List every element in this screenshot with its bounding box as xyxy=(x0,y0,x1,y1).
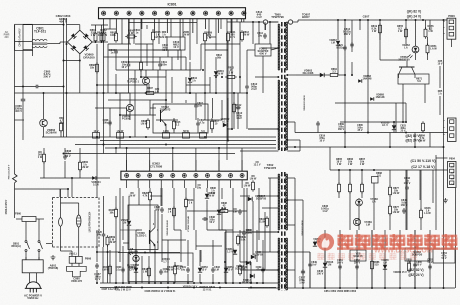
resistor R877b xyxy=(389,204,391,206)
wire field v misc xyxy=(185,57,187,70)
junction center dots xyxy=(202,69,204,71)
wire long bus C xyxy=(75,144,276,146)
wire leftmid v xyxy=(43,148,45,154)
wire uf v extra xyxy=(109,19,111,29)
wire mesh v1 xyxy=(107,44,109,93)
transformer T801 core xyxy=(281,22,283,26)
diode VD801 xyxy=(188,78,192,82)
wire a801 to plug xyxy=(29,273,31,283)
wire T802 taps right xyxy=(287,177,295,179)
resistor row R866 xyxy=(349,182,351,184)
resistor R811 xyxy=(227,31,229,33)
connector P807 xyxy=(448,118,457,141)
wire c866 xyxy=(22,25,24,97)
wire c865 xyxy=(15,86,35,88)
capacitor C809 xyxy=(128,62,130,64)
wire y103 line xyxy=(335,102,406,104)
resistor R813 xyxy=(241,30,243,32)
capacitor C866 xyxy=(22,97,24,99)
diode VD814 xyxy=(250,274,254,278)
wire vt866 xyxy=(43,93,45,119)
resistor R842 xyxy=(148,266,150,268)
junction dots top bus extra xyxy=(337,19,339,21)
diode VD863 xyxy=(320,73,324,77)
resistor R819 xyxy=(379,23,381,25)
wire leftmid h178 xyxy=(40,177,92,179)
resistor R840 xyxy=(109,264,111,266)
wire bridge right xyxy=(92,41,108,43)
wire y75 line xyxy=(296,74,320,76)
diode VD815 xyxy=(313,242,317,246)
resistor Rbc1 xyxy=(173,206,175,208)
opto box xyxy=(128,253,193,282)
resistor R841b xyxy=(174,264,176,266)
wire midline h129 xyxy=(248,128,278,130)
wire mid column verticals xyxy=(246,188,248,283)
wire t860 wires xyxy=(60,247,62,251)
wire right col v xyxy=(439,66,441,88)
capacitor C849 xyxy=(309,262,311,264)
op-amp IC802 block xyxy=(121,171,247,180)
resistor bus box3 xyxy=(163,133,170,139)
capacitor C819 xyxy=(317,121,319,123)
wire T801 taps left xyxy=(270,21,278,23)
resistor R815 xyxy=(173,119,175,121)
transistor VT801 xyxy=(142,77,149,84)
wire mesh h xyxy=(104,28,117,30)
wire right top verticals xyxy=(344,20,346,133)
junctions right top xyxy=(344,19,346,21)
wire bridge bottom xyxy=(79,54,81,93)
wire left vertical bus xyxy=(14,25,16,140)
zener VD805 xyxy=(223,123,227,127)
capacitor C830 xyxy=(122,267,124,269)
box VD866 label xyxy=(405,248,429,261)
transistor VT802 xyxy=(160,110,162,122)
wire vt806 xyxy=(138,188,140,205)
wire uf h extra xyxy=(209,36,216,38)
capacitor Cbc1 xyxy=(135,249,137,251)
capacitor C834 xyxy=(243,230,245,232)
transistor VT864 xyxy=(399,66,415,68)
resistor R885b xyxy=(408,261,410,263)
resistor R884 xyxy=(422,121,424,123)
wire left lower vertical xyxy=(14,189,16,218)
wire lower mesh xyxy=(149,188,151,192)
transformer T801 secondary winding xyxy=(286,22,288,70)
capacitor C837r xyxy=(302,269,304,271)
box VD863 label xyxy=(350,250,366,261)
diode VD865 xyxy=(383,265,387,269)
resistor R848 xyxy=(239,264,241,266)
wire vt802 interior xyxy=(165,125,167,134)
resistor R861 xyxy=(95,31,97,33)
diode VD843 xyxy=(205,194,209,198)
resistor bus box1 xyxy=(93,133,100,139)
wire long bus B xyxy=(100,140,276,142)
wire vd861 xyxy=(247,49,255,51)
wire fuse drop xyxy=(25,222,27,241)
wire right lower verticals xyxy=(338,192,340,198)
wire right extra xyxy=(351,62,353,75)
wire c860 leads xyxy=(71,263,73,266)
fuse F860 xyxy=(22,217,36,222)
junctions y170 xyxy=(338,169,340,171)
wire mesh extra v left xyxy=(146,25,148,29)
zener VD813 xyxy=(233,250,237,254)
capacitor C832 xyxy=(239,209,241,211)
capacitor C808b xyxy=(64,154,66,156)
capacitor C831 xyxy=(187,267,189,269)
wire bc v extra xyxy=(109,250,111,283)
wire T801 taps right xyxy=(287,21,288,23)
resistor R866m xyxy=(96,62,98,64)
transformer A801 box xyxy=(22,260,43,273)
capacitor C814b xyxy=(264,33,266,35)
resistor R851 xyxy=(427,43,429,45)
junction extra dots xyxy=(128,61,130,63)
transformer T802 secondary winding xyxy=(286,174,288,230)
wire field h1 xyxy=(104,56,187,58)
line filter C801 xyxy=(32,39,47,40)
junction bc dots xyxy=(122,282,124,284)
diode VD817 xyxy=(248,197,252,201)
wire bottom extra xyxy=(309,252,311,262)
AC plug xyxy=(26,282,40,289)
resistor row R865 xyxy=(338,182,340,184)
wire vt801 xyxy=(145,70,147,77)
capacitor C811 xyxy=(159,62,161,64)
transistor VD802 opto xyxy=(126,104,133,111)
capacitor C828 xyxy=(161,207,163,209)
capacitor C832 xyxy=(160,269,162,271)
resistor R843b xyxy=(185,197,187,199)
resistor R864 xyxy=(328,74,330,76)
bus junction dots xyxy=(145,136,147,138)
resistor bus box4 xyxy=(183,133,190,139)
resistor R855 xyxy=(405,27,407,29)
diode VD836 xyxy=(251,255,255,259)
capacitor C817 xyxy=(195,103,197,105)
wire h252 xyxy=(118,252,180,254)
resistor R817 xyxy=(211,119,213,121)
transistor VT866 xyxy=(40,119,48,127)
LED VD862 xyxy=(412,46,419,53)
resistor R806 horizontal xyxy=(125,36,127,38)
wire ic to transformer bus xyxy=(227,21,263,23)
wire box y232 xyxy=(225,231,276,233)
resistor R823 xyxy=(225,76,227,78)
resistor R808 xyxy=(147,118,149,120)
wire IC801 pin drops xyxy=(103,19,105,33)
capacitor C842 xyxy=(406,185,408,187)
wire lower extra xyxy=(103,196,105,232)
ground near A801 xyxy=(52,255,54,257)
capacitor C843 xyxy=(243,230,245,232)
wire bottom center verticals xyxy=(102,247,104,283)
wire bottomright verticals xyxy=(294,178,296,288)
wire mesh v2 xyxy=(103,41,105,137)
paper noise overlay xyxy=(0,0,1,1)
wire bridge top xyxy=(79,25,81,31)
capacitor C853 xyxy=(429,264,431,266)
resistor R812 xyxy=(233,102,235,104)
wire IC802 pins up xyxy=(126,160,128,171)
wire leftmid h189 xyxy=(15,188,69,190)
wire degauss internals xyxy=(60,189,62,218)
diode VD867 xyxy=(336,41,340,45)
resistor R844 xyxy=(218,210,220,212)
wire double vertical bus xyxy=(63,18,65,137)
resistor R805 xyxy=(152,30,154,32)
wire bottom-left horizontal xyxy=(23,49,33,51)
capacitor C852 xyxy=(356,264,358,266)
resistor bus box2 xyxy=(117,133,124,139)
resistor R877a xyxy=(389,185,391,187)
capacitor C812b xyxy=(237,105,239,107)
switch S801 xyxy=(25,241,27,243)
watermark weiku logo xyxy=(317,233,334,250)
capacitor C865 xyxy=(34,86,36,88)
fuse oval F8 xyxy=(59,218,63,226)
connector P808 xyxy=(448,162,457,188)
connector P806 xyxy=(447,18,456,39)
wire top-left horizontal xyxy=(23,24,64,26)
wire x97 vertical xyxy=(96,44,98,197)
box C854 label xyxy=(433,249,455,263)
component box C810 xyxy=(167,37,185,50)
transformer T801 primary winding xyxy=(278,24,280,70)
resistor R862 xyxy=(101,31,103,33)
capacitor C826 xyxy=(103,232,105,234)
wire r861 top bus xyxy=(91,24,108,26)
box R871 xyxy=(398,74,429,84)
transistor VT806 xyxy=(149,230,151,244)
resistor R846 xyxy=(420,208,422,210)
interlock T860 xyxy=(69,256,76,263)
wire x227 long drop xyxy=(226,22,228,160)
component box VT806 xyxy=(128,205,158,250)
bridge rectifier VD860 xyxy=(67,30,92,54)
diode VD854 xyxy=(224,268,228,272)
resistor R826 xyxy=(115,207,117,209)
junctions h4 xyxy=(145,92,147,94)
diode VD804 xyxy=(214,71,218,75)
junction bottom left bus xyxy=(115,282,117,284)
junction x97 xyxy=(96,92,98,94)
diode VD864b xyxy=(246,261,250,265)
diode Dbc1 xyxy=(217,210,221,214)
wire y147 right xyxy=(287,146,443,148)
capacitor C867 xyxy=(96,263,98,265)
capacitor C812 xyxy=(246,84,248,86)
resistor R808v xyxy=(140,60,142,62)
capacitor C806 xyxy=(115,49,117,51)
wire mid column horiz xyxy=(240,195,250,197)
diode VD853 xyxy=(198,268,202,272)
op-amp IC801 block xyxy=(99,8,246,19)
transformer T802 primary winding xyxy=(278,174,280,230)
capacitor C821 xyxy=(344,45,346,47)
wire x247 drop xyxy=(246,50,248,84)
resistor R8x1 xyxy=(43,152,45,154)
resistor R809 xyxy=(204,31,206,33)
wire T802 taps left xyxy=(268,177,278,179)
resistor R860b xyxy=(79,160,81,162)
wire bc h extra xyxy=(150,195,162,197)
wire filter to bridge xyxy=(47,43,60,45)
wire long bus D xyxy=(105,147,276,149)
opto PC808 xyxy=(133,255,139,261)
capacitor C851 xyxy=(339,264,341,266)
resistor R886 xyxy=(371,259,373,261)
wire field h4 xyxy=(97,92,240,94)
resistor bus box5 xyxy=(200,133,207,139)
transformer T802 core xyxy=(281,172,283,176)
wire r861 bottom xyxy=(95,41,97,42)
junction dots bottom bus xyxy=(302,287,304,289)
diode VD816 xyxy=(323,263,327,267)
wire filter feed top xyxy=(15,41,33,43)
resistor row R867 xyxy=(361,182,363,184)
component box VT802 xyxy=(153,104,208,133)
capacitor C808 xyxy=(109,120,111,122)
wire field h3 xyxy=(116,69,201,71)
resistor R803 xyxy=(115,31,117,33)
resistor R839 xyxy=(237,234,239,236)
capacitor C838 xyxy=(202,218,204,220)
diode VD861 xyxy=(255,44,271,56)
wire long bus A xyxy=(42,136,276,138)
resistor R867a xyxy=(60,121,62,123)
junction dots on double bus xyxy=(63,24,65,26)
wire vt864 links xyxy=(398,75,400,79)
wire y122 long xyxy=(295,132,448,134)
posistor oval xyxy=(76,215,81,227)
wire IC802 pins down xyxy=(126,180,128,188)
plug C860 xyxy=(67,266,87,277)
resistor R834 xyxy=(266,216,268,218)
resistor R828 xyxy=(149,190,151,192)
resistor R807 xyxy=(144,92,146,94)
diode VD8504 xyxy=(92,176,96,180)
resistor R801 xyxy=(103,31,105,33)
capacitor C816 xyxy=(197,121,199,123)
resistor R831 xyxy=(252,180,254,182)
diode VD851 xyxy=(134,268,138,272)
degaussing coil box dashed xyxy=(53,197,100,199)
wire vd802 xyxy=(129,93,131,104)
capacitor C845 box xyxy=(15,24,33,50)
wire mesh extra h left xyxy=(129,61,161,63)
capacitor C841 xyxy=(403,208,405,210)
wire bottomleft extras xyxy=(107,245,109,283)
capacitor C855 xyxy=(414,262,416,264)
capacitor C813 xyxy=(351,42,353,44)
wire r877 link xyxy=(389,196,391,206)
capacitor C833 xyxy=(212,267,214,269)
wire bottom bus left xyxy=(100,282,278,284)
wire field h2 xyxy=(108,49,168,51)
resistor R856 xyxy=(425,27,427,29)
resistor R869 xyxy=(107,235,109,237)
wire ic-right extras xyxy=(258,22,260,44)
wire y170 bus xyxy=(330,169,448,171)
fuse F861 break xyxy=(14,140,16,174)
transistor VT869 xyxy=(353,218,360,225)
diode VD826 xyxy=(127,221,131,225)
wire ic802 top drops xyxy=(126,148,128,171)
resistor R868s xyxy=(372,177,379,184)
capacitor C839 xyxy=(262,267,264,269)
wire left col to ic802 xyxy=(103,137,105,154)
zener VD8530 xyxy=(392,125,396,129)
LED VD871 xyxy=(356,199,363,206)
